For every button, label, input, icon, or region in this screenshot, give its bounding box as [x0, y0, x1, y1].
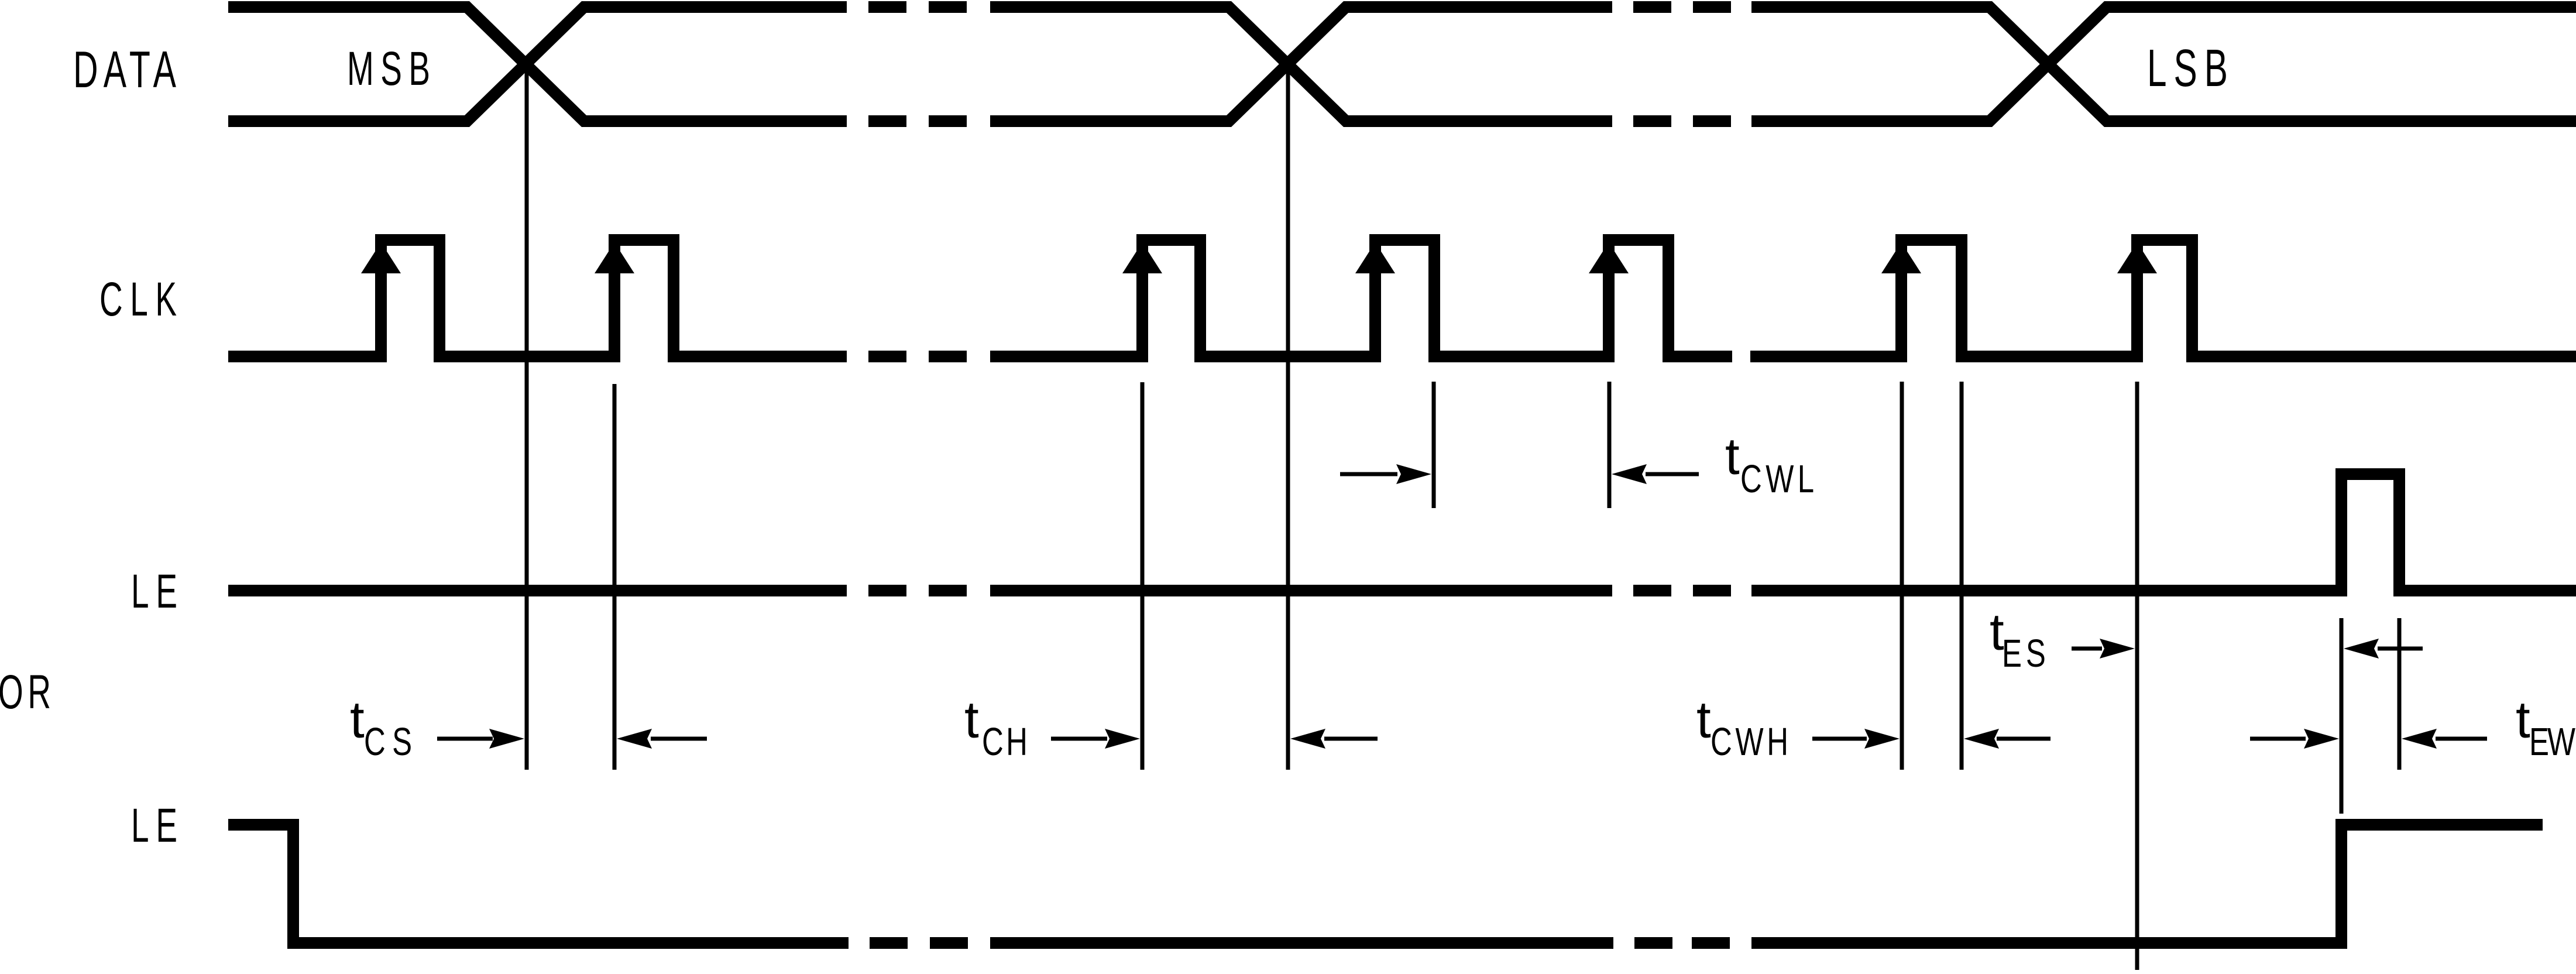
node CLK2-rise reference line — [613, 384, 617, 770]
wire CLK with pulses 6-7 — [1750, 240, 2576, 356]
tCWL arrow heads — [1396, 464, 1431, 484]
tEW arrow heads — [2304, 729, 2339, 749]
label OR — [0, 665, 51, 719]
svg-text:t: t — [1725, 427, 1740, 485]
svg-text:CWH: CWH — [1711, 719, 1788, 763]
node X2 reference line — [1286, 64, 1290, 770]
label tCWH-t — [1696, 690, 1711, 749]
wire DATA dashes bottom region1 — [868, 115, 967, 127]
label tCWH-sub — [1711, 719, 1788, 763]
LE (second, OR alternative) waveform — [228, 825, 2543, 943]
DATA bus waveform (zigzag with crossovers) — [228, 7, 2576, 121]
wire LE2 high, fall, low — [228, 825, 849, 943]
wire DATA mid segment into X2 (lower) — [990, 7, 1612, 121]
node CLK4-fall reference line — [1432, 382, 1436, 508]
node CLK7-rise reference line — [2135, 382, 2139, 970]
label tCWL-t — [1725, 427, 1740, 485]
node X1 reference line — [525, 64, 529, 770]
node CLK6-fall reference line — [1960, 382, 1964, 770]
wire LE low with pulse at right — [228, 585, 847, 596]
node LE-rise reference line — [2340, 618, 2344, 814]
svg-text:CLK: CLK — [99, 272, 177, 326]
wire DATA top-start zigzag through X1 — [228, 7, 847, 121]
CLK waveform — [228, 240, 2576, 356]
svg-text:LSB: LSB — [2147, 39, 2228, 98]
wire DATA dashes top region2 — [1633, 1, 1731, 13]
label DATA — [73, 40, 176, 98]
svg-text:t: t — [350, 690, 365, 749]
wire DATA mid segment into X2 (upper) — [990, 7, 1612, 121]
label tCS-sub — [364, 719, 412, 763]
wire CLK with pulses 3-5 — [990, 240, 1732, 356]
wire DATA segment into X3 (lower) — [1751, 7, 2576, 121]
label tCH-sub — [982, 719, 1028, 763]
node CLK6-rise reference line — [1900, 382, 1904, 770]
svg-text:EW: EW — [2529, 719, 2575, 763]
thin vertical timing reference lines — [527, 64, 2399, 970]
label tCWL-sub — [1740, 457, 1814, 500]
wire DATA segment into X3 (upper) — [1751, 7, 2576, 121]
dimension arrows — [437, 474, 2487, 739]
label MSB — [347, 42, 430, 95]
label tES-sub — [2002, 631, 2046, 675]
label LE — [131, 564, 177, 618]
label tEW-t — [2516, 690, 2530, 749]
tCH arrow heads — [1105, 729, 1140, 749]
svg-text:t: t — [1696, 690, 1711, 749]
wire DATA dashes top region1 — [868, 1, 967, 13]
label CLK — [99, 272, 177, 326]
wire LE2 low, rise, high right — [1751, 825, 2543, 943]
label tEW-sub — [2529, 719, 2575, 763]
node CLK5-rise reference line — [1608, 382, 1612, 508]
wire DATA bottom-start zigzag through X1 — [228, 7, 847, 121]
wire DATA dashes bottom region2 — [1633, 115, 1731, 127]
wire CLK with pulses 1-2 — [228, 240, 847, 356]
label LE2 — [131, 798, 177, 852]
tCS arrow heads — [489, 729, 524, 749]
CLK rising-edge arrowheads — [361, 242, 2157, 273]
label tES-t — [1990, 602, 2004, 661]
svg-text:MSB: MSB — [347, 42, 430, 95]
svg-text:t: t — [964, 690, 979, 749]
label tCS-t — [350, 690, 365, 749]
svg-text:CWL: CWL — [1740, 457, 1814, 500]
label tCH-t — [964, 690, 979, 749]
tES arrow heads — [2100, 639, 2135, 659]
node CLK3-rise reference line — [1141, 382, 1145, 770]
label LSB — [2147, 39, 2228, 98]
svg-text:t: t — [2516, 690, 2530, 749]
tCWH arrow heads — [1864, 729, 1900, 749]
LE (first) waveform — [228, 474, 2576, 591]
wire CLK dashes region1 — [868, 351, 967, 362]
node LE-fall reference line — [2398, 618, 2402, 770]
